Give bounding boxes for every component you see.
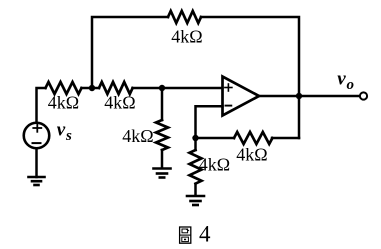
op-amp + input symbol — [225, 84, 232, 91]
source + symbol — [33, 124, 41, 132]
svg-text:vo: vo — [337, 69, 354, 94]
node C junction dot — [192, 135, 198, 141]
resistor R6 4kΩ (bottom feedback) — [234, 132, 272, 144]
svg-text:4kΩ: 4kΩ — [104, 93, 135, 113]
wire R5 to ground — [194, 184, 197, 196]
resistor R4 4kΩ (vertical to ground) — [156, 120, 168, 150]
wire R3 to op-amp + input — [133, 87, 223, 90]
caption figure character 圖 — [180, 227, 191, 243]
wire top feedback right segment — [201, 17, 299, 96]
op-amp - input symbol — [226, 105, 232, 107]
node B junction dot — [159, 85, 165, 91]
resistor R5 4kΩ (vertical to ground) — [190, 150, 202, 184]
terminal vo open circle — [360, 92, 367, 99]
voltage source vs circle — [24, 123, 50, 149]
ground under source — [29, 177, 45, 185]
wire R6 to right vertical — [272, 137, 299, 140]
svg-text:4kΩ: 4kΩ — [199, 155, 230, 175]
wire R4 to ground — [161, 150, 164, 168]
ground under R5 — [187, 196, 204, 205]
resistor R2 4kΩ (top feedback) — [168, 11, 201, 23]
svg-text:vs: vs — [57, 119, 72, 144]
wire from source top to R1 — [37, 88, 46, 122]
wire op-amp inverting input down to node C — [196, 106, 223, 138]
svg-text:4kΩ: 4kΩ — [122, 126, 153, 146]
svg-text:4kΩ: 4kΩ — [236, 145, 267, 165]
ground under R4 — [154, 169, 171, 178]
node A junction dot — [89, 85, 95, 91]
source - symbol — [33, 142, 41, 144]
svg-text:4kΩ: 4kΩ — [48, 93, 79, 113]
wire source to ground — [35, 150, 38, 178]
wire node C to R6 (bottom feedback) — [196, 137, 235, 140]
wire op-amp output to terminal — [259, 95, 360, 98]
resistor R3 4kΩ (second series) — [99, 82, 133, 94]
wire node C to R5 — [194, 138, 197, 150]
svg-text:4: 4 — [199, 222, 211, 247]
node D junction dot — [296, 93, 302, 99]
wire top feedback left segment — [92, 17, 168, 88]
wire node B down to R4 — [161, 88, 164, 120]
wire right vertical lower segment — [298, 96, 301, 138]
svg-text:4kΩ: 4kΩ — [171, 27, 202, 47]
op-amp U1 triangle — [223, 77, 260, 116]
wire R1 to R3 (through node A) — [82, 87, 100, 90]
resistor R1 4kΩ (left series) — [46, 82, 82, 94]
